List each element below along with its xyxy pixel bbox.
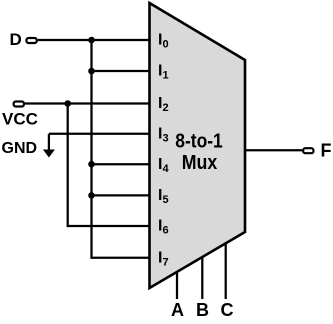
junction dot on I5 xyxy=(88,192,95,199)
terminal F xyxy=(303,148,313,153)
wire I2 from VCC terminal to mux xyxy=(25,102,150,104)
wire I5 xyxy=(92,194,151,196)
svg-text:Mux: Mux xyxy=(182,152,218,174)
svg-text:GND: GND xyxy=(2,140,38,157)
mux body (8-to-1 multiplexer trapezoid) xyxy=(150,3,246,288)
wire select A xyxy=(176,272,178,299)
junction dot on I0 xyxy=(88,37,95,44)
ground arrow xyxy=(43,150,55,158)
svg-text:8-to-1: 8-to-1 xyxy=(175,131,223,153)
junction dot on I2 xyxy=(64,100,71,107)
wire GND stem xyxy=(48,134,50,150)
svg-text:A: A xyxy=(171,300,184,320)
wire select B xyxy=(201,257,203,299)
wire VCC vertical xyxy=(67,104,69,228)
wire D vertical bus xyxy=(90,40,92,259)
svg-text:D: D xyxy=(10,30,22,49)
wire I7 xyxy=(92,257,151,259)
wire I6 xyxy=(68,225,150,227)
junction dot on I4 xyxy=(88,161,95,168)
terminal VCC xyxy=(14,102,24,107)
svg-text:B: B xyxy=(196,300,209,320)
wire F output xyxy=(245,149,302,151)
terminal D xyxy=(26,38,36,43)
wire I4 xyxy=(92,163,151,165)
wire I3 from GND to mux xyxy=(49,133,150,135)
svg-text:VCC: VCC xyxy=(2,110,38,129)
wire select C xyxy=(225,243,227,299)
svg-text:F: F xyxy=(321,141,332,161)
wire I0 from D terminal to mux xyxy=(38,39,150,41)
svg-text:C: C xyxy=(221,300,234,320)
junction dot on I1 xyxy=(88,68,95,75)
wire I1 xyxy=(92,70,151,72)
